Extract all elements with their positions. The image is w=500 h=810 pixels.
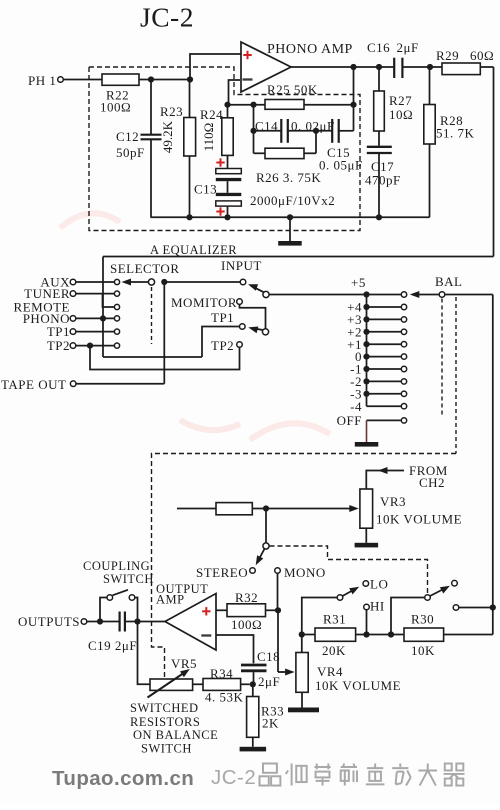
svg-text:CH2: CH2 xyxy=(419,475,445,490)
wire C18 to node xyxy=(253,672,255,684)
contact AUX xyxy=(114,279,119,284)
svg-text:470pF: 470pF xyxy=(365,173,401,188)
resistor R23 xyxy=(189,80,191,118)
svg-text:110Ω: 110Ω xyxy=(201,123,216,152)
junction phono feed / PHONO contact xyxy=(100,315,106,321)
attenuator tap +3 xyxy=(367,318,402,320)
selector mechanical dashed link xyxy=(151,287,153,344)
selector output node xyxy=(161,279,167,285)
left balance switch wiper xyxy=(337,595,343,601)
svg-text:100Ω: 100Ω xyxy=(100,100,131,115)
contact INPUT xyxy=(240,279,246,285)
capacitor C12 xyxy=(150,80,152,135)
svg-text:20K: 20K xyxy=(322,643,346,658)
wire R33 to ground xyxy=(252,737,254,747)
opamp output wire xyxy=(291,66,394,68)
svg-text:A EQUALIZER: A EQUALIZER xyxy=(150,243,237,257)
contact TUNER xyxy=(114,291,119,296)
wire OUTPUTS xyxy=(87,621,119,623)
attenuator tap 0 xyxy=(367,356,402,358)
potentiometer VR4 xyxy=(296,653,308,693)
potentiometer VR3 xyxy=(360,489,373,528)
svg-text:C16: C16 xyxy=(367,40,390,55)
svg-text:10K: 10K xyxy=(411,643,435,658)
BAL mechanical dashed link 1 xyxy=(441,299,443,417)
capacitor C19 xyxy=(118,612,120,632)
coupling switch branch xyxy=(100,598,107,622)
stereo switch blade xyxy=(258,549,265,562)
coupling switch blade xyxy=(113,590,129,596)
svg-text:60Ω: 60Ω xyxy=(470,48,494,63)
ground symbol VR3 xyxy=(355,543,379,548)
balance linkage dashed frame xyxy=(152,454,457,679)
contact REMOTE xyxy=(114,304,119,309)
wire C14 to C15 xyxy=(288,130,332,132)
svg-text:4. 53K: 4. 53K xyxy=(205,690,244,705)
wire TP2 xyxy=(76,345,114,347)
wire VR3 bottom xyxy=(365,528,367,543)
resistor R30 xyxy=(404,628,444,641)
ground symbol VR4 xyxy=(288,708,319,713)
wire R22 to node xyxy=(139,79,190,81)
capacitor C15 xyxy=(331,119,333,143)
right bus lower segment xyxy=(492,295,494,635)
node junction R23/opamp xyxy=(187,76,193,82)
svg-text:C18: C18 xyxy=(257,649,280,664)
attenuator tap -4 xyxy=(367,405,402,407)
wire node X down to VR4 wiper xyxy=(277,610,279,672)
ground symbol equalizer xyxy=(287,214,293,220)
svg-text:R32: R32 xyxy=(235,590,258,605)
input select wiper xyxy=(263,291,269,297)
svg-text:VR4: VR4 xyxy=(317,664,343,679)
switched resistor (balance) xyxy=(216,503,252,515)
svg-text:C12: C12 xyxy=(116,129,139,144)
node C16/R29/R28 xyxy=(427,64,433,70)
attenuator bus xyxy=(366,295,368,407)
equalizer dashed box xyxy=(89,67,360,231)
feedback node wire xyxy=(228,104,266,106)
svg-text:COUPLING: COUPLING xyxy=(83,559,150,573)
wire R31 left xyxy=(302,634,315,636)
resistor R31 xyxy=(315,628,356,641)
attenuator tap +2 xyxy=(367,331,402,333)
right balance switch blade xyxy=(430,588,447,597)
ground symbol attenuator xyxy=(355,442,379,447)
capacitor C18 xyxy=(241,664,267,667)
wire TUNER xyxy=(76,293,114,295)
capacitor C14 xyxy=(254,130,282,132)
capacitor C13 electrolytic pair xyxy=(227,155,229,168)
rheostat VR5 xyxy=(150,679,193,690)
svg-text:TP2: TP2 xyxy=(47,338,70,353)
svg-text:C19 2μF: C19 2μF xyxy=(88,638,137,653)
svg-text:PHONO AMP: PHONO AMP xyxy=(267,42,353,57)
svg-text:2μF: 2μF xyxy=(258,674,280,689)
svg-text:VR5: VR5 xyxy=(171,656,197,671)
wire VR4 bottom xyxy=(301,692,303,707)
svg-text:OUTPUTS: OUTPUTS xyxy=(18,614,80,629)
wire selector out down to tape out xyxy=(163,282,165,384)
svg-text:ON BALANCE: ON BALANCE xyxy=(133,728,218,742)
svg-text:10Ω: 10Ω xyxy=(389,107,413,122)
contact HI xyxy=(364,604,370,610)
stereo-balance dashed linkage xyxy=(270,546,428,594)
contact PHONO xyxy=(114,316,119,321)
coupling switch contact right xyxy=(129,595,135,601)
svg-text:TP2: TP2 xyxy=(211,338,234,353)
wire VR4 top to R31 xyxy=(301,635,303,653)
svg-text:R24: R24 xyxy=(200,107,223,122)
wire - input to feedback node xyxy=(229,80,241,105)
svg-text:R30: R30 xyxy=(411,612,434,627)
coupling switch contact left xyxy=(107,595,113,601)
capacitor C17 xyxy=(378,131,380,146)
wire selector out to INPUT contact xyxy=(164,281,240,283)
coupling switch wire right xyxy=(135,598,137,622)
svg-text:SWITCH: SWITCH xyxy=(103,572,154,586)
node C18/R34/R33 xyxy=(250,681,256,687)
svg-text:VR3: VR3 xyxy=(380,494,406,509)
svg-text:AMP: AMP xyxy=(156,593,185,607)
svg-text:OFF: OFF xyxy=(337,413,362,428)
junction R30 left xyxy=(388,631,394,637)
node C19 right xyxy=(134,618,140,624)
contact TP2 xyxy=(114,343,119,348)
svg-text:JC-2: JC-2 xyxy=(140,2,194,33)
wire node to R33 xyxy=(252,684,254,696)
resistor R29 xyxy=(442,63,480,75)
VR5 diagonal arrow xyxy=(148,672,187,698)
contact STEREO xyxy=(250,568,256,574)
svg-text:-4: -4 xyxy=(350,399,362,414)
wire VR5 to R34 xyxy=(193,683,203,685)
svg-text:+5: +5 xyxy=(351,275,366,290)
TP2 monitor loop wire xyxy=(90,346,240,370)
right bus upper segment xyxy=(493,67,495,257)
svg-text:R34: R34 xyxy=(210,666,233,681)
attenuator tap -3 xyxy=(367,393,402,395)
svg-text:MONO: MONO xyxy=(284,565,326,580)
right balance switch pole wire xyxy=(391,598,424,635)
junction TP2 loop xyxy=(87,343,93,349)
junction R31 left xyxy=(299,631,305,637)
svg-text:100Ω: 100Ω xyxy=(231,617,262,632)
contact TP1 xyxy=(114,329,119,334)
svg-text:Tupao.com.cn: Tupao.com.cn xyxy=(52,767,194,790)
svg-text:TAPE OUT: TAPE OUT xyxy=(1,377,66,392)
monitor wiper xyxy=(262,329,268,335)
wire VR3 top from CH2 xyxy=(366,471,404,490)
wire OFF to ground xyxy=(366,420,368,442)
wire TP1 xyxy=(76,331,114,333)
phono feed wire top xyxy=(103,256,494,258)
svg-text:TP1: TP1 xyxy=(47,324,70,339)
svg-text:2000μF/10Vx2: 2000μF/10Vx2 xyxy=(250,193,335,208)
attenuator tap +5 xyxy=(363,291,369,297)
attenuator tap -2 xyxy=(367,380,402,382)
wire to volume stage stub xyxy=(177,508,216,510)
svg-text:INPUT: INPUT xyxy=(221,258,262,273)
node R32/MONO xyxy=(275,607,281,613)
left rail of feedback network xyxy=(253,105,255,154)
wire REMOTE xyxy=(103,294,115,307)
wire R34 to node xyxy=(241,683,250,685)
svg-text:HI: HI xyxy=(370,599,385,614)
feedback rail to output xyxy=(353,67,355,131)
monitor wiper blade xyxy=(252,328,264,330)
resistor R27 xyxy=(378,67,380,91)
VR4 wiper arrow xyxy=(278,671,291,673)
attenuator tap -1 xyxy=(367,368,402,370)
resistor R24 xyxy=(227,105,229,118)
opamp U2 output amp xyxy=(165,594,216,651)
resistor R34 xyxy=(203,679,241,691)
wire outputs node down to VR5 xyxy=(138,622,151,685)
contact upper right switch xyxy=(452,580,458,586)
svg-text:MOMITOR: MOMITOR xyxy=(171,295,237,310)
wire R31 to R30 xyxy=(356,634,404,636)
resistor R28 xyxy=(429,67,431,105)
svg-text:SWITCHED: SWITCHED xyxy=(130,701,199,715)
svg-text:50pF: 50pF xyxy=(116,145,145,160)
svg-text:C13: C13 xyxy=(194,182,217,197)
resistor R25 xyxy=(265,100,304,110)
junction HI xyxy=(363,631,369,637)
wire MONO down xyxy=(277,574,279,610)
wire R32 to node X xyxy=(266,609,279,611)
svg-text:2μF: 2μF xyxy=(397,40,419,55)
phono feed wire left rail xyxy=(102,257,104,358)
stereo switch pivot xyxy=(263,543,269,549)
resistor R22 xyxy=(102,74,139,85)
resistor R26 xyxy=(254,152,266,154)
svg-text:R25 50K: R25 50K xyxy=(267,82,318,97)
wire PH1 to R22 xyxy=(64,79,102,81)
svg-text:0. 05μF: 0. 05μF xyxy=(319,158,363,173)
wire node to stereo pivot xyxy=(265,509,267,544)
svg-text:2K: 2K xyxy=(262,716,279,731)
svg-text:C14: C14 xyxy=(255,119,278,134)
svg-text:R29: R29 xyxy=(436,48,459,63)
svg-text:RESISTORS: RESISTORS xyxy=(130,715,200,729)
resistor R32 xyxy=(227,604,266,617)
wire to TP1 monitor contact xyxy=(202,327,239,358)
svg-text:JC-2: JC-2 xyxy=(211,766,256,789)
opamp U1 phono amp xyxy=(241,42,291,92)
junction bus/balance contact xyxy=(490,604,496,610)
ground symbol R33 xyxy=(240,747,267,752)
wire PHONO xyxy=(76,317,114,319)
wire + input to R32 xyxy=(216,609,227,611)
left balance switch pole wire xyxy=(302,598,337,635)
contact lower right switch xyxy=(453,605,459,611)
wire node up to + input xyxy=(190,54,241,80)
svg-text:TP1: TP1 xyxy=(211,310,234,325)
BAL mechanical dashed link 2 xyxy=(455,297,457,454)
wire R29 to right bus xyxy=(480,66,493,68)
contact TP2 monitor xyxy=(237,342,243,348)
wire to VR3 wiper xyxy=(252,508,355,510)
node to stereo switch xyxy=(263,505,269,511)
BAL wiper arrow xyxy=(414,294,439,296)
svg-text:R23: R23 xyxy=(160,104,183,119)
svg-text:BAL: BAL xyxy=(435,274,463,289)
svg-text:PH 1: PH 1 xyxy=(28,73,56,88)
contact MONO xyxy=(275,568,281,574)
wire - input to C18 xyxy=(216,635,254,663)
input wiper blade xyxy=(251,286,264,292)
wire AUX xyxy=(76,281,114,283)
svg-text:STEREO: STEREO xyxy=(196,565,248,580)
left balance switch blade xyxy=(343,589,357,597)
svg-text:R26 3. 75K: R26 3. 75K xyxy=(256,170,321,185)
selector wiper arrow xyxy=(127,281,149,283)
watermark pink smudge xyxy=(60,213,330,440)
right balance switch wiper xyxy=(425,595,431,601)
wire HI to R31 right xyxy=(366,610,368,634)
attenuator tap +4 xyxy=(367,306,402,308)
node C19 left xyxy=(97,618,103,624)
rail C14/R26 junction xyxy=(315,131,317,154)
equalizer ground wire xyxy=(151,216,430,218)
contact MONITOR xyxy=(237,299,243,305)
svg-text:LO: LO xyxy=(370,577,388,592)
svg-text:49.2K: 49.2K xyxy=(160,120,175,153)
wire input wiper to attenuator xyxy=(269,294,401,296)
monitor link wire xyxy=(240,305,266,329)
contact TP1 monitor xyxy=(240,324,246,330)
node junction R22/C12 xyxy=(148,76,154,82)
capacitor C16 xyxy=(393,58,395,78)
phono feed wire bottom xyxy=(103,356,202,358)
attenuator tap +1 xyxy=(367,343,402,345)
svg-text:10K VOLUME: 10K VOLUME xyxy=(315,678,401,693)
resistor R33 xyxy=(247,697,259,738)
wire R30 right to bus xyxy=(444,634,493,636)
balance wiper BAL xyxy=(439,292,445,298)
svg-text:SELECTOR: SELECTOR xyxy=(110,261,180,276)
wire contact to bus xyxy=(459,607,493,609)
svg-text:51. 7K: 51. 7K xyxy=(436,126,475,141)
svg-text:R27: R27 xyxy=(389,93,412,108)
selector wiper pivot xyxy=(148,279,154,285)
wire BAL to right bus xyxy=(445,294,493,296)
tape out wire xyxy=(76,383,164,385)
contact LO xyxy=(363,581,369,587)
svg-text:10K VOLUME: 10K VOLUME xyxy=(376,512,462,527)
svg-text:R31: R31 xyxy=(323,612,346,627)
svg-text:SWITCH: SWITCH xyxy=(141,742,192,756)
wire R25 right xyxy=(304,104,354,106)
